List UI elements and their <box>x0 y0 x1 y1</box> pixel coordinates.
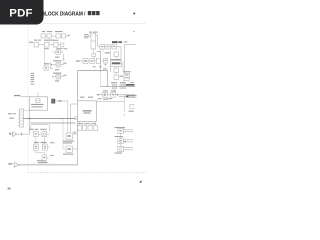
wire vertical to output bus <box>107 71 109 87</box>
label right <box>120 76 124 77</box>
aux small box <box>44 66 48 70</box>
amp block 3 <box>96 59 100 64</box>
junction dot <box>126 95 128 97</box>
long return wire down-left <box>77 121 79 165</box>
terminal label list <box>31 73 35 74</box>
bold L-wire horizontal <box>78 70 108 72</box>
eq box B <box>43 144 48 150</box>
wide DSP box <box>111 61 122 67</box>
wire <box>21 95 30 97</box>
bold input stub <box>76 61 80 62</box>
wires <box>123 129 133 131</box>
wire tall box down <box>92 49 94 54</box>
bold dash on wire <box>58 100 61 101</box>
wire <box>115 73 117 76</box>
vertical <box>120 133 122 139</box>
cd servo box <box>66 133 73 139</box>
IF small box <box>92 54 96 57</box>
amp block 4 <box>104 58 108 63</box>
wire down <box>92 57 94 59</box>
mic label <box>8 163 12 164</box>
caption under row 2 <box>44 48 49 49</box>
junction dot <box>29 118 31 120</box>
jack block 3 (mic) <box>56 74 61 79</box>
wire right to return line <box>73 148 78 150</box>
eq box A <box>34 144 39 150</box>
caption row <box>111 82 117 83</box>
amp block 1 <box>83 59 88 64</box>
wire vertical to main cpu <box>77 71 79 101</box>
AM block 1 <box>34 42 39 47</box>
mic arrow symbol <box>14 162 19 167</box>
tuner block 1 <box>41 34 45 38</box>
jack block 2 (phones) <box>56 62 61 67</box>
wire <box>80 60 83 62</box>
top-right corner mark <box>133 13 135 15</box>
wire <box>58 44 61 46</box>
FM label row <box>89 32 92 33</box>
label row above tuner chain <box>42 31 45 32</box>
wire <box>115 67 117 69</box>
faint top mark <box>124 115 125 116</box>
dark crystal block right <box>52 99 56 103</box>
out jack 3 (headphone) <box>118 146 124 151</box>
vertical bus 2 <box>123 45 125 74</box>
wire <box>111 46 113 48</box>
wire to right verticals <box>117 46 122 48</box>
bus wire 2 <box>31 122 76 124</box>
wire down to jack1 <box>55 47 57 50</box>
arrow wire into jacks <box>97 94 103 96</box>
wire with double tick <box>116 94 119 96</box>
bracket wire over cluster <box>31 125 50 132</box>
out jack 1 <box>118 129 124 134</box>
wire right <box>47 146 49 148</box>
wire <box>47 133 50 135</box>
wire <box>108 94 111 96</box>
sub box row 3 <box>88 126 92 131</box>
top dashed trim line <box>44 23 147 25</box>
tick pair <box>20 133 23 136</box>
left stub wire <box>50 62 52 69</box>
jack box A <box>34 132 39 137</box>
inner title lines <box>83 110 92 111</box>
small box above wide box <box>114 52 119 57</box>
right stub row 2 <box>130 107 135 109</box>
wires <box>124 146 134 148</box>
wire <box>95 60 97 62</box>
vertical <box>123 94 125 112</box>
wire right <box>60 51 63 53</box>
wire from tall box to right bus <box>96 34 98 36</box>
wire <box>105 46 107 48</box>
wire down from AM block2 <box>44 47 46 66</box>
FM tuner tall box <box>91 34 96 50</box>
wire <box>100 60 103 62</box>
long mic wire <box>19 164 78 166</box>
wire row1 to row2 <box>48 38 50 42</box>
cd label text 2 lines <box>63 141 74 142</box>
small box on left edge <box>75 117 78 120</box>
labels under box <box>78 123 83 124</box>
mic amp triangle <box>13 132 17 137</box>
block 2 <box>111 92 116 97</box>
vertical wire to IC801 row <box>97 35 99 47</box>
sub box row 1 <box>77 126 81 131</box>
jack block 1 <box>56 50 60 54</box>
vertical bus 1 <box>120 47 122 61</box>
wire left with tick <box>53 76 56 78</box>
wire <box>115 57 117 61</box>
wire <box>11 133 13 135</box>
right margin faint mark <box>133 31 134 32</box>
wire stub <box>113 89 115 93</box>
bus wire 1 bold <box>23 118 75 120</box>
AM block 2 <box>45 42 50 47</box>
long wire <box>97 101 125 103</box>
bottom-right nav mark <box>139 180 141 182</box>
out jack 2 <box>118 139 124 144</box>
labels <box>103 90 108 91</box>
wire right <box>61 64 65 66</box>
box below wide box <box>114 68 119 73</box>
wire left branch <box>62 119 64 149</box>
main system-control block <box>78 101 97 122</box>
wire from crystal <box>55 100 68 102</box>
label above line <box>37 160 45 161</box>
side note text <box>73 131 76 134</box>
sub box row 2 <box>83 126 87 131</box>
svg-text:BLOCK DIAGRAM /: BLOCK DIAGRAM / <box>42 11 86 17</box>
wires down <box>35 137 37 144</box>
jack2 caption <box>55 69 59 70</box>
aux label <box>44 63 49 64</box>
faint wire <box>104 53 111 55</box>
wire <box>49 44 54 46</box>
second faint wire <box>30 162 55 164</box>
jack3 caption <box>55 80 59 81</box>
caption <box>103 99 108 100</box>
stub above <box>37 92 39 97</box>
label right <box>63 75 66 76</box>
jack box B with circle <box>42 132 47 137</box>
sub box row 4 <box>94 126 98 131</box>
wire with end tick <box>66 35 70 37</box>
wire right <box>61 75 64 77</box>
right small box 1 <box>124 73 130 77</box>
jack box with circle <box>112 84 116 88</box>
right small box 2 <box>124 78 130 81</box>
AM block 3 <box>54 42 59 47</box>
wire <box>45 35 47 37</box>
tiny label <box>124 41 127 42</box>
connector pin stubs <box>18 110 20 112</box>
jack box with two circles <box>120 84 126 88</box>
caption <box>115 153 123 154</box>
wire <box>98 46 100 48</box>
IC801 designator <box>112 41 118 43</box>
junction dot <box>124 141 125 142</box>
wire <box>23 110 29 112</box>
bold pair to right <box>127 95 137 97</box>
wire <box>39 44 45 46</box>
small label right of power box <box>50 155 54 156</box>
connector labels <box>8 113 12 114</box>
mic dot label <box>9 133 11 135</box>
dsp block 3 <box>112 45 117 50</box>
wire <box>51 35 56 37</box>
wire across <box>36 152 45 154</box>
captions under amp row <box>93 66 96 67</box>
tiny label above bar <box>130 81 134 84</box>
amp block 2 <box>90 59 95 64</box>
caption <box>129 111 134 112</box>
jack3 label row <box>53 73 61 74</box>
page number bottom-left <box>8 188 11 190</box>
multi-pin connector <box>20 109 24 127</box>
tuner block 4 <box>61 34 65 38</box>
ground symbol under amp4 <box>105 63 107 65</box>
jack block with circle <box>103 92 108 97</box>
label <box>115 136 124 137</box>
caption under cd mech <box>63 154 74 155</box>
lower box <box>114 75 119 80</box>
output bus line 1 <box>100 86 135 88</box>
wires down from bus <box>67 101 69 133</box>
label <box>123 71 131 72</box>
double output bus <box>119 94 135 96</box>
stubs to sub boxes <box>78 121 80 125</box>
wire down <box>35 150 37 152</box>
label left <box>14 95 20 96</box>
labels above main block <box>80 97 85 98</box>
dsp block 1 <box>100 45 105 50</box>
jack1 caption <box>55 57 60 58</box>
wire right <box>47 157 49 159</box>
label above wide box <box>111 59 121 60</box>
margin label left of AM block <box>29 42 33 43</box>
inner crystal box <box>36 99 40 103</box>
label row <box>34 142 39 143</box>
wire <box>38 133 42 135</box>
label row <box>29 129 34 130</box>
bold bus bar <box>126 84 135 86</box>
power box C <box>42 155 47 161</box>
vertical wire <box>110 50 112 72</box>
wire from IC601 down <box>29 110 31 134</box>
right column: vertical from wide box <box>122 62 124 71</box>
left fold dashed line <box>27 25 29 173</box>
page header title BLOCK DIAGRAM <box>42 11 100 17</box>
wire down w tick <box>63 54 65 60</box>
small label left of cd <box>50 142 55 143</box>
tiny coupling box <box>89 35 91 37</box>
jack2 label row <box>53 60 61 61</box>
wires <box>123 139 133 141</box>
label <box>105 52 109 53</box>
end block small <box>61 43 64 47</box>
vertical join <box>129 105 131 108</box>
top right wire <box>124 44 136 46</box>
FM text block 3 lines <box>84 33 88 36</box>
wire left <box>53 51 56 53</box>
wire from amp <box>17 133 30 135</box>
caption <box>103 68 107 69</box>
dsp block 2 <box>106 45 111 50</box>
branch down <box>62 119 64 123</box>
label row 2 <box>34 40 37 41</box>
label <box>115 127 125 128</box>
bottom dashed trim line <box>28 172 147 174</box>
inner caption lines <box>31 104 44 105</box>
PDF file-type badge <box>0 0 44 25</box>
wire down <box>123 81 125 87</box>
svg-text:PDF: PDF <box>9 8 32 20</box>
tuner block 2 <box>47 34 51 38</box>
cd mech box <box>66 146 73 152</box>
IC601 microcomputer block <box>30 97 48 110</box>
wire down <box>44 153 46 155</box>
label right <box>63 63 66 64</box>
vertical <box>120 144 122 147</box>
wire <box>88 60 90 62</box>
wire left with tick <box>52 64 57 66</box>
tuner block 3 <box>56 34 60 38</box>
wire <box>60 35 61 37</box>
labels above wire <box>98 98 102 99</box>
wire into left side <box>70 103 77 105</box>
right stub row 1 <box>130 104 135 106</box>
T wire <box>97 51 100 53</box>
caption <box>38 162 48 163</box>
stub pins below dsp1 <box>100 49 102 52</box>
